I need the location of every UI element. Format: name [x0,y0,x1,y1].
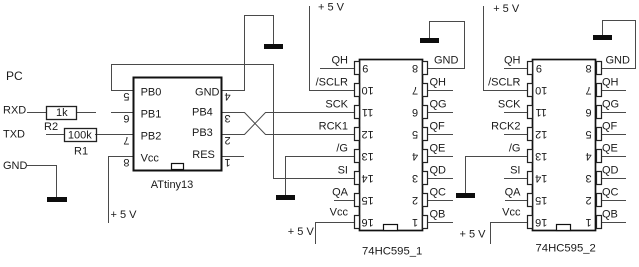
svg-text:6: 6 [412,106,418,118]
svg-text:1: 1 [412,216,418,228]
svg-text:74HC595_1: 74HC595_1 [362,246,422,258]
svg-text:+ 5 V: + 5 V [493,3,520,15]
svg-text:QF: QF [602,121,618,133]
svg-text:14: 14 [361,172,373,184]
svg-text:Vcc: Vcc [330,207,349,219]
svg-text:+ 5 V: + 5 V [288,226,315,238]
svg-text:TXD: TXD [3,129,25,141]
svg-text:13: 13 [535,150,547,162]
svg-text:PB3: PB3 [192,127,213,139]
svg-text:15: 15 [535,194,547,206]
svg-text:7: 7 [586,84,592,96]
svg-text:R1: R1 [74,146,88,158]
svg-text:QA: QA [505,187,522,199]
svg-text:3: 3 [412,172,418,184]
svg-text:16: 16 [361,216,373,228]
svg-text:12: 12 [535,128,547,140]
svg-text:GND: GND [3,160,28,172]
svg-text:QC: QC [430,187,447,199]
svg-text:/SCLR: /SCLR [488,77,520,89]
svg-text:PB0: PB0 [141,86,162,98]
svg-text:3: 3 [225,112,231,124]
svg-text:SI: SI [510,165,520,177]
svg-text:7: 7 [412,84,418,96]
svg-text:2: 2 [412,194,418,206]
svg-text:PB4: PB4 [192,106,213,118]
svg-text:SCK: SCK [325,99,348,111]
svg-text:/G: /G [509,143,521,155]
svg-text:3: 3 [586,172,592,184]
svg-text:+ 5 V: + 5 V [318,1,345,13]
svg-text:4: 4 [412,150,418,162]
svg-text:QG: QG [430,99,447,111]
svg-text:10: 10 [535,84,547,96]
svg-text:QD: QD [430,165,447,177]
svg-text:6: 6 [586,106,592,118]
svg-text:14: 14 [535,172,547,184]
svg-text:9: 9 [536,62,542,74]
svg-text:12: 12 [361,128,373,140]
svg-text:+ 5 V: + 5 V [460,229,487,241]
svg-text:8: 8 [586,62,592,74]
svg-text:QE: QE [430,143,446,155]
svg-text:RCK1: RCK1 [319,121,348,133]
svg-text:QC: QC [602,187,619,199]
svg-text:10: 10 [361,84,373,96]
svg-text:15: 15 [361,194,373,206]
svg-text:5: 5 [586,128,592,140]
svg-text:/G: /G [336,143,348,155]
svg-text:7: 7 [123,134,129,146]
svg-text:QB: QB [430,209,446,221]
svg-text:+ 5 V: + 5 V [111,209,138,221]
svg-text:QH: QH [430,77,447,89]
svg-text:4: 4 [586,150,592,162]
svg-text:QH: QH [602,77,619,89]
svg-text:8: 8 [123,156,129,168]
svg-text:2: 2 [586,194,592,206]
svg-text:1: 1 [586,216,592,228]
svg-text:QE: QE [602,143,618,155]
svg-text:16: 16 [535,216,547,228]
svg-text:2: 2 [225,134,231,146]
svg-text:1: 1 [225,156,231,168]
svg-text:/SCLR: /SCLR [316,77,348,89]
svg-text:Vcc: Vcc [502,207,521,219]
svg-text:11: 11 [362,106,373,118]
svg-text:RXD: RXD [3,104,26,116]
svg-text:GND: GND [195,86,220,98]
svg-text:QA: QA [332,187,349,199]
svg-text:RES: RES [192,149,215,161]
svg-text:SCK: SCK [498,99,521,111]
svg-text:PB1: PB1 [141,108,162,120]
svg-text:5: 5 [123,90,129,102]
svg-text:RCK2: RCK2 [491,121,520,133]
svg-text:100k: 100k [68,129,92,141]
svg-text:SI: SI [338,165,348,177]
svg-text:QF: QF [430,121,446,133]
svg-text:11: 11 [535,106,546,118]
svg-text:13: 13 [361,150,373,162]
svg-text:8: 8 [412,62,418,74]
svg-text:ATtiny13: ATtiny13 [151,179,194,191]
svg-text:Vcc: Vcc [141,152,160,164]
svg-text:6: 6 [123,112,129,124]
svg-text:1k: 1k [56,107,68,119]
svg-text:4: 4 [225,90,231,102]
svg-text:PC: PC [6,69,23,83]
svg-text:74HC595_2: 74HC595_2 [536,243,596,255]
svg-text:QG: QG [602,99,619,111]
svg-text:QD: QD [602,165,619,177]
svg-text:QH: QH [504,55,521,67]
svg-text:QH: QH [332,55,349,67]
svg-text:QB: QB [602,209,618,221]
svg-text:GND: GND [606,55,631,67]
svg-text:GND: GND [434,55,459,67]
svg-text:R2: R2 [44,121,58,133]
svg-text:PB2: PB2 [141,130,162,142]
svg-text:9: 9 [362,62,368,74]
svg-text:5: 5 [412,128,418,140]
